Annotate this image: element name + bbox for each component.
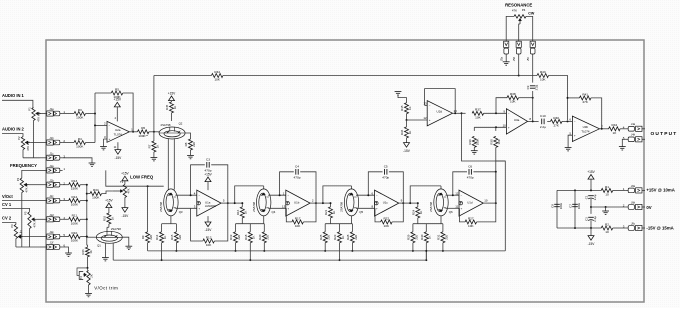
svg-text:U2d: U2d xyxy=(437,110,443,114)
node U3b pin6 node xyxy=(567,120,569,122)
svg-text:−: − xyxy=(508,111,510,115)
svg-text:10K: 10K xyxy=(206,243,212,247)
capacitor C2 2.2µ xyxy=(584,216,597,222)
node J5b node xyxy=(518,75,520,77)
wire U2d loop xyxy=(425,89,456,114)
svg-text:+: + xyxy=(461,206,463,210)
svg-text:470p: 470p xyxy=(467,175,474,179)
wire R28 bus lead xyxy=(351,243,353,251)
svg-text:P2: P2 xyxy=(17,136,21,140)
node bus link node xyxy=(425,250,427,252)
wire C6 loop left xyxy=(453,172,467,195)
svg-text:V/Oct: V/Oct xyxy=(2,194,13,199)
wire R3 right lead xyxy=(86,113,95,115)
resistor R5 100K xyxy=(111,87,123,99)
svg-text:10K: 10K xyxy=(497,139,501,144)
op-amp U2a xyxy=(104,121,133,142)
svg-text:J2a: J2a xyxy=(49,164,54,168)
wire U1c bottom input wire xyxy=(356,207,375,209)
svg-text:J1c: J1c xyxy=(49,151,54,155)
wire freq bias wire xyxy=(106,170,148,186)
svg-text:1K: 1K xyxy=(428,235,432,239)
op-amp U1d xyxy=(455,190,488,216)
wire R16 top lead xyxy=(241,203,243,207)
resistor R1 10 xyxy=(601,185,613,197)
svg-text:R18: R18 xyxy=(244,234,248,240)
node R37 out node xyxy=(495,112,497,114)
wire R5 right lead xyxy=(123,93,133,132)
svg-text:R21: R21 xyxy=(324,209,328,215)
svg-text:R5: R5 xyxy=(115,87,119,91)
svg-text:100n: 100n xyxy=(577,202,581,209)
svg-text:Q5: Q5 xyxy=(359,210,363,214)
svg-text:47K log: 47K log xyxy=(36,112,40,122)
wire C4 loop right xyxy=(300,172,316,203)
wire Q2 right emitter drop xyxy=(173,138,175,189)
svg-text:R34: R34 xyxy=(93,188,99,192)
wire R38 right lead xyxy=(519,97,533,99)
wire R7 top lead xyxy=(153,132,155,141)
potentiometer P3 47K lin xyxy=(16,177,29,192)
wire R12 loop xyxy=(191,208,203,241)
wire P1 bottom drop xyxy=(33,121,35,158)
op-amp U1a xyxy=(194,190,225,216)
svg-text:J2b: J2b xyxy=(49,178,54,182)
ground R7 ground xyxy=(151,158,158,161)
svg-text:12: 12 xyxy=(423,116,427,120)
wire interstage riser xyxy=(235,186,264,203)
node gnd2 dot xyxy=(605,206,607,208)
wire psu -15V stem xyxy=(590,228,592,236)
svg-text:U1a: U1a xyxy=(205,201,211,205)
svg-text:2SA798: 2SA798 xyxy=(161,123,171,127)
wire R34 right lead xyxy=(102,191,113,194)
wire Q1 top lead b xyxy=(107,226,109,228)
power +15V U2a vcc xyxy=(114,98,122,107)
wire R20 bus lead xyxy=(263,243,265,251)
wire U2a -15V stem xyxy=(117,142,119,149)
resistor R41 27K xyxy=(580,92,592,104)
wire R19 bus lead xyxy=(235,243,237,251)
potentiometer P2 47K log xyxy=(17,136,30,151)
node U3a out node xyxy=(532,120,534,122)
wire R30 top lead xyxy=(425,224,427,232)
wire audio in 1 lead xyxy=(2,100,33,107)
wire Q2 right to R8 xyxy=(185,133,190,139)
svg-text:P6: P6 xyxy=(10,224,14,228)
wire R27 loop xyxy=(460,208,466,222)
svg-text:R25: R25 xyxy=(319,234,323,240)
node sum node R34 xyxy=(86,193,88,195)
potentiometer P4 47K xyxy=(514,15,526,24)
ground R35 top ground xyxy=(395,92,402,95)
svg-text:C4: C4 xyxy=(295,165,299,169)
svg-text:TL074: TL074 xyxy=(114,132,123,136)
node ladder input node xyxy=(153,131,155,133)
wire audio in 2 lead xyxy=(2,134,23,137)
svg-text:C5: C5 xyxy=(384,165,388,169)
transistor pair Q1 2SA798 xyxy=(96,231,122,243)
node Q1 base node xyxy=(86,236,88,238)
node mixer node top xyxy=(94,113,96,115)
resistor R36 1K xyxy=(400,127,412,138)
svg-text:R36: R36 xyxy=(400,129,404,135)
svg-text:+: + xyxy=(376,206,378,210)
wire psu +15V stem xyxy=(590,179,592,190)
wire R13 right lead xyxy=(80,184,87,186)
svg-text:47K: 47K xyxy=(512,9,517,13)
connector J5a xyxy=(499,41,508,61)
svg-text:R9: R9 xyxy=(141,235,145,239)
svg-text:-15V: -15V xyxy=(403,149,411,153)
capacitor C6 470p xyxy=(467,165,474,180)
wire R39 bottom lead xyxy=(473,147,475,150)
wire R17 loop xyxy=(286,208,292,222)
resistor R7 1K xyxy=(148,141,160,152)
svg-text:R44: R44 xyxy=(214,70,220,74)
svg-text:470p: 470p xyxy=(382,175,389,179)
wire C1 bottom lead xyxy=(590,199,592,214)
svg-text:R31: R31 xyxy=(437,234,441,240)
op-amp U2d xyxy=(423,101,457,126)
transistor pair Q5 2SA798 xyxy=(340,189,364,216)
wire R29 top lead xyxy=(412,224,414,232)
svg-text:+: + xyxy=(508,125,510,129)
wire P6 bottom drop xyxy=(15,239,17,247)
wire stage top lead xyxy=(351,186,353,189)
svg-text:1K: 1K xyxy=(155,145,159,149)
wire psu gnd stem xyxy=(605,207,607,211)
wire U1a -15V stem xyxy=(207,216,209,222)
wire R34 left lead xyxy=(87,193,90,195)
wire stage4 out drop xyxy=(495,172,497,203)
wire freq bias to stage1 xyxy=(148,185,164,187)
wire R14 top lead xyxy=(161,224,163,232)
wire stage bottom bar xyxy=(413,223,443,225)
wire U2d top stub xyxy=(425,104,428,106)
wire P5 bottom drop xyxy=(29,229,31,247)
svg-text:47K log: 47K log xyxy=(26,141,30,151)
svg-text:1K: 1K xyxy=(163,235,167,239)
wire P4 wiper leg xyxy=(519,24,520,41)
ground psu ground xyxy=(602,211,609,214)
wire R12 left lead xyxy=(63,200,69,202)
svg-text:−: − xyxy=(376,193,378,197)
svg-text:P1: P1 xyxy=(28,107,32,111)
wire U1b output lead xyxy=(310,202,316,204)
svg-text:R40: R40 xyxy=(553,116,559,120)
wire buffer to bus drop xyxy=(462,113,506,161)
wire C9 to output node xyxy=(532,91,534,121)
wire R38 loop left xyxy=(496,98,507,114)
resistor R18 1K xyxy=(244,232,256,243)
svg-text:47K lin: 47K lin xyxy=(32,218,36,227)
power +15V Q2 vcc xyxy=(168,91,176,100)
wire R35 bottom lead xyxy=(406,114,408,120)
wire R32 to Q1 xyxy=(108,224,110,227)
svg-text:R6: R6 xyxy=(141,126,145,130)
svg-text:−: − xyxy=(429,104,431,108)
resistor R39 100K xyxy=(468,136,480,147)
connector J4b pin 5 xyxy=(623,133,645,142)
resistor R30 1K xyxy=(420,232,432,243)
wire U3a pin10 wire xyxy=(474,126,506,128)
wire R5 loop left xyxy=(94,93,96,114)
wire R13 left lead xyxy=(63,184,69,186)
wire stage top lead xyxy=(263,186,265,189)
wire feedback drop to ladder xyxy=(153,76,155,132)
node rail3 dot1 xyxy=(574,227,576,229)
ground J1c ground xyxy=(89,163,96,166)
node U2a output node xyxy=(132,131,134,133)
wire stage1 R9 drop xyxy=(147,186,149,232)
wire mixer input join xyxy=(94,114,96,143)
wire R28 top lead xyxy=(351,224,353,232)
node R24 top node xyxy=(417,202,419,204)
transistor pair Q3 2SA798 xyxy=(159,189,183,216)
wire interstage signal xyxy=(316,202,331,204)
wire R1 right lead xyxy=(613,189,626,191)
svg-text:10K: 10K xyxy=(295,224,301,228)
wire P3 wiper to J2b xyxy=(29,184,40,186)
svg-text:−: − xyxy=(287,193,289,197)
wire bias bus 2 xyxy=(113,259,426,261)
op-amp U1c xyxy=(371,190,402,216)
connector J5c xyxy=(526,41,535,61)
power +15V psu vcc xyxy=(587,170,595,179)
svg-text:R19: R19 xyxy=(229,234,233,240)
wire bus2 to bus1 link xyxy=(425,251,427,260)
capacitor C10 2.2µ xyxy=(540,114,546,129)
resistor R27 10K xyxy=(465,216,477,228)
wire U1b top input wire xyxy=(268,194,286,196)
wire R30col bottom lead xyxy=(495,147,497,171)
wire U1b bottom input wire xyxy=(268,207,286,209)
svg-text:+15V: +15V xyxy=(168,91,176,95)
node R41 node xyxy=(567,97,569,99)
svg-text:−: − xyxy=(109,124,111,128)
resistor R30 10K xyxy=(489,136,501,147)
wire T2 bottom lead xyxy=(88,285,90,293)
resistor R42 1K xyxy=(609,123,621,135)
wire R31 bus lead xyxy=(442,243,444,251)
wire P6 wiper to J2e xyxy=(23,236,40,238)
wire Q1 bottom right drop xyxy=(112,243,114,260)
wire buffer pin12 wire xyxy=(407,119,428,121)
wire R46 bottom lead xyxy=(87,257,89,268)
svg-text:1K: 1K xyxy=(252,235,256,239)
power -15V U2a vee xyxy=(115,150,123,160)
transistor pair Q4 2SA798 xyxy=(252,189,276,216)
svg-text:R12: R12 xyxy=(206,235,212,239)
svg-text:J2d: J2d xyxy=(49,213,54,217)
svg-text:R37: R37 xyxy=(475,108,481,112)
ground U2a input ground xyxy=(100,147,107,150)
potentiometer P1 47K log xyxy=(28,107,41,122)
node R31 bus node xyxy=(442,250,444,252)
node U1c output node xyxy=(402,202,404,204)
svg-text:R46: R46 xyxy=(81,249,85,255)
wire resonance feedback line left xyxy=(154,75,212,77)
wire R22 loop right xyxy=(392,203,403,222)
node U1b loop dot xyxy=(279,194,281,196)
svg-text:TL074: TL074 xyxy=(581,129,590,133)
wire C2 bottom lead xyxy=(590,221,592,228)
wire J1c to ground xyxy=(63,158,92,163)
capacitor C1 2.2µ xyxy=(584,194,597,200)
resistor R9 220 xyxy=(141,232,153,243)
wire R18 bus lead xyxy=(249,243,251,260)
svg-text:11: 11 xyxy=(114,145,117,149)
wire C8 column xyxy=(556,190,558,228)
node R20 bus node xyxy=(263,250,265,252)
svg-text:J2e: J2e xyxy=(49,230,54,234)
svg-text:10K: 10K xyxy=(468,224,474,228)
wire R2 right lead xyxy=(613,227,626,229)
svg-text:+: + xyxy=(429,118,431,122)
wire R18 top lead xyxy=(249,224,251,232)
svg-text:J6a: J6a xyxy=(631,184,636,188)
svg-text:C6: C6 xyxy=(468,165,472,169)
wire R11 left lead xyxy=(63,218,69,220)
wire R37 right lead xyxy=(484,112,507,114)
resistor R22 10K xyxy=(381,216,393,228)
svg-text:1K: 1K xyxy=(341,235,345,239)
wire C5 loop left xyxy=(368,172,382,195)
svg-text:10K: 10K xyxy=(214,78,220,82)
wire U2a gnd stub xyxy=(103,139,105,147)
svg-text:Q1: Q1 xyxy=(97,243,101,247)
resistor R46 1K xyxy=(81,247,93,257)
wire summing to R46 xyxy=(86,245,89,247)
wire C5 loop right xyxy=(389,172,403,203)
svg-text:U1b: U1b xyxy=(294,201,300,205)
svg-text:+: + xyxy=(198,206,200,210)
svg-text:2SA798: 2SA798 xyxy=(111,227,121,231)
wire P2 bottom drop xyxy=(22,150,24,158)
capacitor C3 470p xyxy=(205,158,212,173)
resistor R19 220 xyxy=(229,232,241,243)
wire R25 bus lead xyxy=(324,243,326,251)
node U1a output node xyxy=(227,202,229,204)
node sum node R10 xyxy=(86,236,88,238)
resistor R40 27K xyxy=(551,116,563,128)
wire R12 loop right xyxy=(214,203,227,241)
wire pot ground chain xyxy=(16,246,40,248)
wire C6 loop right xyxy=(473,172,495,203)
svg-text:10K: 10K xyxy=(540,78,546,82)
wire R8 bottom lead xyxy=(190,150,192,155)
svg-text:R24: R24 xyxy=(411,209,415,215)
wire U1c top input wire xyxy=(356,194,375,196)
svg-text:220: 220 xyxy=(237,234,241,239)
resistor R29 220 xyxy=(407,232,419,243)
svg-text:AUDIO IN 2: AUDIO IN 2 xyxy=(2,126,25,131)
wire U2a inverting input xyxy=(95,124,107,126)
svg-text:13: 13 xyxy=(282,205,286,209)
potentiometer P6 47K lin xyxy=(10,224,23,239)
wire Q1 bottom left drop xyxy=(104,243,106,257)
svg-text:R12: R12 xyxy=(72,195,78,199)
svg-text:C2: C2 xyxy=(584,217,588,221)
wire C4 loop left xyxy=(280,172,294,195)
wire R30 bus lead xyxy=(425,243,427,260)
svg-text:100K: 100K xyxy=(71,239,79,243)
svg-text:R23: R23 xyxy=(333,234,337,240)
resistor R16 1K xyxy=(236,207,248,218)
wire C10 to R40 xyxy=(547,120,550,122)
svg-text:220: 220 xyxy=(149,234,153,239)
wire R4 right lead xyxy=(86,142,95,144)
svg-text:+15V: +15V xyxy=(587,170,595,174)
svg-text:J6c: J6c xyxy=(631,221,636,225)
node interstage riser node xyxy=(409,202,411,204)
resistor R44 10K xyxy=(211,70,223,82)
svg-text:R14: R14 xyxy=(155,234,159,240)
node R29 bus node xyxy=(412,250,414,252)
connector J6a pin 1 xyxy=(623,184,645,193)
wire R21 top lead xyxy=(330,203,332,207)
svg-text:10K: 10K xyxy=(384,224,390,228)
svg-text:2SA798: 2SA798 xyxy=(252,201,256,211)
trimmer T2 2K xyxy=(77,268,94,285)
wire R27 loop right xyxy=(477,203,496,222)
resistor R24 1K xyxy=(411,207,423,218)
wire R3 left lead xyxy=(63,113,74,115)
wire R39 top lead xyxy=(473,127,475,131)
wire U3a out wire xyxy=(528,120,539,122)
svg-text:R27: R27 xyxy=(468,216,474,220)
resistor R23 1K xyxy=(333,232,345,243)
trimmer T1 47K xyxy=(113,180,131,197)
wire R32 top stem xyxy=(108,208,110,213)
wire U2d out to R37 xyxy=(462,112,466,114)
svg-text:CV 1: CV 1 xyxy=(2,202,12,207)
svg-text:470p: 470p xyxy=(294,175,301,179)
op-amp U1b xyxy=(282,190,314,216)
node rail2 dot xyxy=(590,206,592,208)
wire R16 bottom lead xyxy=(241,218,243,224)
node R23 bus node xyxy=(339,259,341,261)
node mixer node pin2 xyxy=(94,124,96,126)
svg-text:1K: 1K xyxy=(244,211,248,215)
wire U1a output lead xyxy=(221,202,228,204)
node C9 R38 node xyxy=(532,97,534,99)
connector J1c pin 3 xyxy=(40,151,65,160)
svg-text:100n: 100n xyxy=(559,202,563,209)
wire R36 bottom stem xyxy=(406,138,408,143)
node R25 bus node xyxy=(324,250,326,252)
svg-text:J2f: J2f xyxy=(50,241,54,245)
wire P5 wiper to J2d xyxy=(37,218,40,220)
svg-text:1K: 1K xyxy=(408,106,412,110)
wire R14 bus lead xyxy=(161,243,163,260)
wire R15 top lead xyxy=(175,224,177,232)
resistor R31 220 xyxy=(437,232,449,243)
node R30 loop node xyxy=(495,171,497,173)
ground J2f ground xyxy=(65,253,72,256)
svg-text:J5b: J5b xyxy=(512,56,516,61)
node sum node R12 xyxy=(86,200,88,202)
wire cv1 lead xyxy=(2,208,30,211)
ground T2 ground xyxy=(85,293,92,296)
node rail1 dot2 xyxy=(590,189,592,191)
svg-text:1K: 1K xyxy=(89,250,93,254)
svg-text:100K: 100K xyxy=(76,145,84,149)
wire stage top lead xyxy=(440,186,442,189)
svg-text:CW: CW xyxy=(528,12,535,16)
ground J4b ground xyxy=(619,147,626,150)
